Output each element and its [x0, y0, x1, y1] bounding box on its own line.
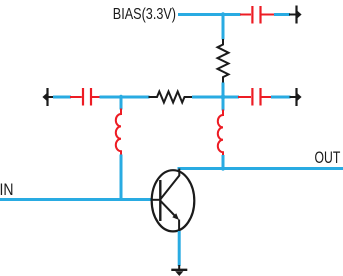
- capacitor C2 left lead: [70, 96, 82, 98]
- wire from bias rail down to R1: [222, 15, 225, 40]
- wire L2 to OUT line: [222, 155, 225, 170]
- ground (bottom): [171, 265, 187, 276]
- svg-text:IN: IN: [0, 181, 14, 199]
- svg-text:BIAS(3.3V): BIAS(3.3V): [113, 6, 176, 23]
- resistor R2 (horizontal): [149, 92, 194, 103]
- wire node to L2: [222, 97, 225, 111]
- node OUT junction: [221, 166, 225, 170]
- node L1 tap: [119, 95, 123, 99]
- ground (top right): [289, 6, 302, 24]
- ground (middle left): [42, 88, 54, 106]
- resistor R1 (vertical): [218, 39, 229, 84]
- wire R1 to middle rail: [222, 83, 225, 98]
- node center cross: [221, 95, 226, 100]
- wire OUT line: [178, 167, 343, 170]
- capacitor C2 right lead: [92, 96, 101, 98]
- wire ground to C2: [53, 96, 71, 99]
- wire C2 to R2: [100, 96, 150, 99]
- inductor L2: [218, 110, 223, 157]
- capacitor C3 right lead: [261, 96, 272, 98]
- transistor Q1 emitter arrowhead: [172, 213, 179, 220]
- wire C3 to ground: [271, 96, 291, 99]
- transistor Q1 emitter drop: [178, 220, 180, 232]
- inductor L1: [116, 109, 121, 156]
- capacitor C1 left lead: [240, 14, 251, 16]
- transistor Q1 body: [152, 170, 195, 231]
- capacitor C1 plates: [251, 6, 253, 24]
- wire top bias rail: [178, 13, 241, 16]
- transistor Q1 base lead: [151, 199, 161, 201]
- capacitor C3 left lead: [238, 96, 251, 98]
- transistor Q1 collector lead: [161, 169, 180, 199]
- capacitor C3 plates: [251, 88, 253, 106]
- wire emitter to ground: [178, 231, 181, 266]
- wire L1 to IN line: [120, 155, 123, 200]
- svg-text:OUT: OUT: [315, 149, 341, 167]
- capacitor C2 plates: [82, 88, 84, 106]
- wire IN line: [0, 198, 152, 201]
- transistor Q1 base bar: [159, 180, 161, 221]
- wire C1 to ground: [274, 13, 290, 16]
- node top junction: [221, 12, 225, 16]
- wire node to L1: [120, 97, 123, 110]
- transistor Q1 emitter lead: [161, 201, 177, 217]
- capacitor C1 right lead: [261, 14, 275, 16]
- wire R2 to node: [192, 96, 239, 99]
- ground (middle right): [290, 88, 302, 106]
